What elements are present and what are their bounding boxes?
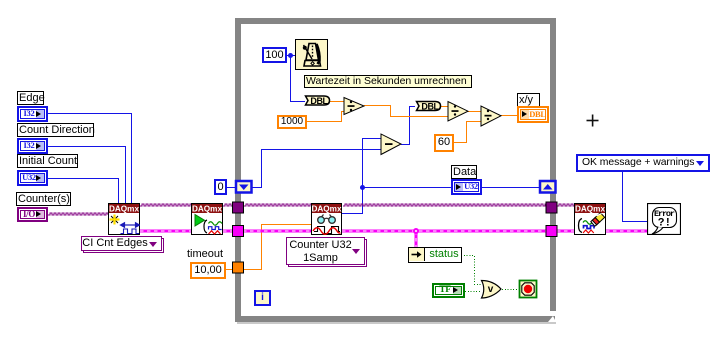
label Edge [17, 91, 44, 105]
wire: error branch down to unbundle status [415, 231, 418, 247]
divide function 2 [448, 102, 468, 122]
wire: DBL2 to divide2 upper input [441, 106, 448, 108]
wire: status to Or gate top input [461, 256, 482, 285]
DBL conversion bubble 1 [306, 96, 330, 105]
junction dot on data wire [360, 185, 365, 190]
wire: OK message enum down to error handler [623, 172, 648, 222]
divide function 1 [344, 98, 364, 115]
DBL conversion bubble 2 [417, 102, 441, 111]
wire: junction up to subtract upper input [363, 139, 382, 188]
constant 0 [214, 179, 227, 195]
wire: subtract output to DBL conversion 2 [401, 107, 415, 145]
wire: read to right tunnel (task) [343, 204, 547, 206]
label x/y [517, 93, 540, 107]
wire: Count Direction to DAQmx create [48, 147, 126, 204]
wire: data line to U32 indicator and right shift register [363, 187, 452, 189]
label Data [451, 165, 477, 179]
subtract function [381, 134, 401, 155]
loop iteration terminal i [254, 290, 271, 306]
svg-text:DAQmx: DAQmx [109, 205, 139, 214]
stop button [520, 281, 537, 298]
wire: DAQmx read data output up to junction [342, 188, 363, 214]
svg-text:DBL: DBL [421, 102, 439, 112]
terminal Edge I32 [17, 106, 48, 122]
Or gate symbol v [484, 283, 497, 296]
Simple Error Handler VI [0, 203, 34, 235]
wire: right tunnel to DAQmx clear (task) [557, 204, 577, 206]
wire: start to left tunnel (task) [223, 204, 235, 206]
wire: timeout 10,00 to tunnel and to DAQmx read [225, 269, 233, 271]
label Counter(s) [16, 192, 71, 206]
Wait ms metronome function [295, 39, 328, 70]
wire: error read to right tunnel [342, 230, 547, 233]
wire: divide1 output to divide2 lower input [364, 106, 448, 117]
wire: tunnel to DAQmx read (task) [244, 204, 312, 206]
tunnel: timeout left [233, 262, 244, 273]
DAQmx Read VI [311, 203, 342, 235]
terminal Initial Count U32 [17, 170, 48, 186]
wire: error clear to error handler [606, 230, 647, 233]
wire: TF constant to Or gate lower input [465, 291, 482, 293]
shift register right (up arrow) [540, 181, 556, 193]
svg-text:DBL: DBL [310, 96, 328, 106]
wire: error create to start [140, 230, 191, 233]
svg-text:DAQmx: DAQmx [575, 205, 605, 214]
tunnel: error right [546, 226, 557, 237]
wire: 1000 constant to divide1 lower input [306, 112, 344, 122]
wire: error tunnel to read [243, 230, 311, 233]
tunnel: task left [233, 202, 244, 213]
wire: left shift register up to subtract lower input [251, 150, 381, 188]
unbundle by name: status [408, 247, 462, 263]
divide function 3 [481, 106, 501, 126]
ring constant Counter U32 1Samp [288, 239, 367, 267]
Or function [482, 281, 502, 299]
wire: Edge terminal to DAQmx create [48, 114, 132, 204]
wire: create to start (task) [140, 204, 192, 206]
DAQmx Start Task VI [191, 203, 223, 235]
wire: divide3 output to DBL indicator [501, 115, 517, 117]
wire: 0 constant to left shift register [227, 187, 236, 189]
constant 1000 [277, 115, 307, 129]
terminal TF false constant [432, 283, 465, 298]
DAQmx Clear Task VI [574, 203, 606, 235]
wire: 100 constant to Wait ms and down to DBL conversion [287, 55, 295, 57]
tunnel: error left [233, 226, 244, 237]
wire: error right tunnel to clear [557, 230, 574, 233]
ring constant OK message + warnings [576, 154, 710, 172]
junction on error wire [413, 228, 419, 234]
wire: error start to tunnel [223, 230, 234, 233]
wire: Initial Count to DAQmx create [48, 179, 119, 204]
plus cursor [587, 120, 599, 122]
label Wartezeit comment [304, 75, 472, 88]
terminal x/y DBL indicator [517, 106, 549, 123]
wire: DBL1 to divide1 [330, 101, 344, 103]
constant 60 [434, 134, 454, 152]
label Count Direction [17, 123, 94, 137]
wire: Counter(s) I/O to DAQmx create (task zigzag) [48, 213, 108, 215]
shift register left (down arrow) [236, 181, 252, 193]
junction dot on 100 wire [288, 53, 293, 58]
while loop border [235, 18, 556, 24]
label Initial Count [17, 154, 78, 168]
wire: Or output to stop button [502, 289, 519, 291]
constant 100 [262, 47, 287, 63]
terminal Count Direction I32 [17, 138, 48, 154]
label timeout [187, 249, 223, 260]
constant 10,00 timeout [190, 262, 226, 279]
wire: 60 constant to divide3 lower input [453, 122, 481, 143]
svg-text:?!: ?! [658, 218, 671, 230]
wire: divide2 output to divide3 [468, 111, 481, 113]
tunnel: task right [546, 202, 557, 213]
DAQmx Create Channel VI [108, 203, 140, 235]
svg-text:DAQmx: DAQmx [311, 205, 341, 214]
svg-text:DAQmx: DAQmx [192, 205, 222, 214]
ring constant CI Cnt Edges [83, 238, 164, 253]
terminal Counter(s) I/O [17, 207, 48, 222]
terminal Data U32 indicator [451, 179, 482, 195]
